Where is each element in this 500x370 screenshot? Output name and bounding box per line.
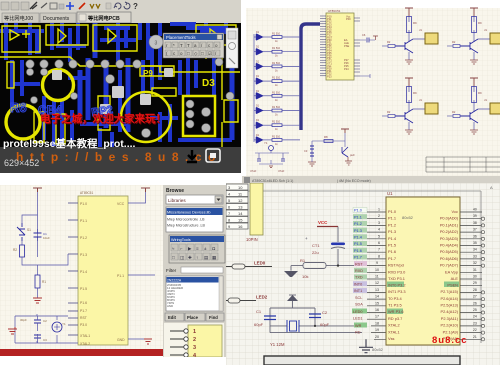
svg-text:P0.7(AD7): P0.7(AD7) — [440, 263, 459, 268]
svg-text:P0.0(AD0): P0.0(AD0) — [440, 216, 459, 221]
svg-text:P1.3: P1.3 — [388, 229, 396, 234]
svg-text:P0.2(AD2): P0.2(AD2) — [440, 229, 459, 234]
ground — [405, 60, 413, 64]
svg-text:▶: ▶ — [188, 246, 192, 251]
svg-text:VCC: VCC — [318, 220, 328, 225]
svg-text:EA Vpp: EA Vpp — [445, 269, 458, 274]
svg-text:P1.1: P1.1 — [80, 219, 87, 223]
svg-text:Miep Microstructure .LB: Miep Microstructure .LB — [167, 224, 206, 228]
svg-text:GND: GND — [117, 338, 125, 342]
svg-text:SDA: SDA — [355, 303, 363, 307]
svg-text:2: 2 — [193, 337, 196, 343]
svg-text:Documents: Documents — [43, 16, 70, 22]
ground right — [345, 157, 352, 165]
svg-text:6: 6 — [378, 241, 380, 245]
svg-text:10k: 10k — [302, 274, 308, 279]
diode D2 row with resistor — [254, 46, 300, 58]
svg-text:3: 3 — [378, 221, 380, 225]
svg-text:Miscellaneous Devices.lib: Miscellaneous Devices.lib — [167, 211, 210, 215]
svg-text:Y1 12M: Y1 12M — [270, 342, 285, 347]
svg-text:P1.3: P1.3 — [354, 229, 362, 233]
svg-text:P1.1: P1.1 — [388, 216, 396, 221]
svg-text:P1.1: P1.1 — [354, 215, 362, 219]
svg-text:P1.2: P1.2 — [388, 222, 396, 227]
svg-text:INT1: INT1 — [354, 289, 362, 293]
svg-text:ALE: ALE — [451, 276, 459, 281]
svg-text:10: 10 — [238, 185, 243, 190]
svg-text:8: 8 — [378, 254, 380, 258]
svg-text:R1 510: R1 510 — [272, 33, 281, 36]
svg-text:protel99se基本教程_prot....: protel99se基本教程_prot.... — [3, 137, 136, 150]
junction — [314, 325, 316, 327]
PCB text R6 — [10, 100, 27, 115]
resistor R1 10k — [291, 258, 354, 279]
wire to connector — [413, 37, 425, 39]
svg-text:10uF: 10uF — [43, 236, 50, 240]
caption strip — [0, 147, 241, 173]
svg-text:C2: C2 — [43, 319, 47, 323]
svg-text:Y1: Y1 — [62, 322, 66, 326]
svg-text:5: 5 — [378, 234, 380, 238]
svg-text:16: 16 — [238, 224, 243, 229]
svg-text:P2.4(A12): P2.4(A12) — [440, 309, 458, 314]
svg-text:16: 16 — [375, 308, 379, 312]
svg-text:R1: R1 — [42, 280, 46, 284]
svg-text:629×452: 629×452 — [4, 158, 39, 168]
svg-text:21: 21 — [473, 335, 477, 339]
svg-text:T: T — [180, 43, 183, 48]
svg-text:□: □ — [172, 255, 175, 260]
svg-text:⌐: ⌐ — [180, 246, 183, 251]
svg-text:P1.5: P1.5 — [80, 287, 87, 291]
toolbar — [0, 0, 241, 12]
svg-text:P1.4: P1.4 — [80, 270, 87, 274]
svg-text:34: 34 — [473, 248, 477, 252]
svg-text:CT1: CT1 — [312, 243, 320, 248]
svg-text:C1: C1 — [256, 309, 262, 314]
svg-text:↑: ↑ — [196, 255, 198, 260]
red band at bottom — [0, 349, 165, 356]
power VCC bar — [405, 8, 413, 16]
transistor circuit Q4 — [447, 78, 500, 134]
diode D6 row with resistor — [254, 105, 300, 117]
sheet border — [240, 191, 481, 343]
svg-text:P3.0: P3.0 — [80, 323, 87, 327]
svg-text:13: 13 — [238, 205, 243, 210]
connector 10PIN — [246, 183, 263, 242]
svg-text:37: 37 — [473, 228, 477, 232]
svg-text:▦: ▦ — [212, 255, 217, 260]
svg-text:◫: ◫ — [180, 255, 185, 260]
svg-text:60pF: 60pF — [320, 322, 330, 327]
title block table — [426, 157, 500, 172]
svg-text:27: 27 — [473, 295, 477, 299]
size label 629x452 — [4, 158, 39, 168]
svg-text:47uF: 47uF — [250, 169, 257, 173]
wire diode cathode rail — [253, 34, 255, 142]
svg-text:P0.4(AD4): P0.4(AD4) — [440, 243, 459, 248]
crystal Y1 — [264, 141, 274, 151]
libraries listbox — [166, 207, 223, 232]
svg-text:Browse: Browse — [166, 188, 184, 194]
svg-text:P1.6: P1.6 — [354, 249, 362, 253]
svg-text:电子之城，欢迎大家来玩！: 电子之城，欢迎大家来玩！ — [40, 112, 166, 125]
ground under R1 — [284, 266, 298, 277]
resistor R2 — [13, 241, 38, 265]
diode D8 row with resistor — [254, 134, 300, 146]
bottom popup window edge — [264, 356, 460, 365]
capacitor C1 10uF — [34, 229, 51, 241]
svg-text:40: 40 — [473, 208, 477, 212]
svg-text:INT0: INT0 — [354, 282, 362, 286]
svg-text:P1.0: P1.0 — [80, 202, 87, 206]
svg-text:P1.6: P1.6 — [80, 301, 87, 305]
svg-text:WR P3.6: WR P3.6 — [388, 309, 404, 314]
wire GND right + ground — [128, 339, 152, 344]
crystal circuit — [254, 308, 362, 347]
svg-text:31: 31 — [473, 268, 477, 272]
PCB text P9 — [143, 69, 153, 78]
svg-text:WR: WR — [355, 324, 362, 328]
svg-text:D3: D3 — [202, 78, 215, 89]
PCB canvas — [0, 23, 241, 147]
svg-text:INT0 P3.2: INT0 P3.2 — [388, 282, 406, 287]
svg-text:32: 32 — [473, 261, 477, 265]
bus wire — [301, 24, 320, 130]
svg-text:P1.7: P1.7 — [80, 309, 87, 313]
resistor R2 base — [382, 40, 395, 48]
svg-text:Filter: Filter — [166, 268, 177, 273]
capacitor C5 47uF — [278, 159, 285, 173]
svg-text:P2.3(A11): P2.3(A11) — [441, 316, 459, 321]
resistor R8 — [324, 135, 333, 143]
svg-text:3: 3 — [193, 345, 196, 351]
svg-text:RXD: RXD — [355, 269, 363, 273]
svg-text:LED1: LED1 — [353, 317, 363, 321]
red watermark — [432, 335, 468, 346]
diode column D1-D8 with resistors — [254, 31, 300, 146]
PCB traces blue — [0, 23, 232, 147]
component preview — [164, 323, 224, 357]
svg-text:等比网电PCB: 等比网电PCB — [87, 14, 120, 22]
diode D7 row with resistor — [254, 119, 300, 131]
svg-text:P1.7: P1.7 — [388, 256, 396, 261]
PCB text BP2 — [91, 104, 114, 119]
svg-text:C3: C3 — [43, 338, 47, 342]
svg-text:60pF: 60pF — [254, 322, 264, 327]
wire — [37, 316, 39, 343]
edit place find buttons — [165, 313, 224, 321]
expand icon — [206, 149, 220, 162]
red chinese overlay text — [40, 112, 167, 126]
ground left — [308, 157, 316, 166]
crystal circuit bottom left — [250, 141, 289, 173]
svg-text:Libraries: Libraries — [168, 198, 186, 203]
svg-text:P1.4: P1.4 — [354, 236, 362, 240]
svg-text:11: 11 — [375, 275, 379, 279]
pad 3 — [149, 35, 163, 49]
resistor R1 — [35, 254, 68, 298]
crystal subcircuit — [15, 314, 78, 343]
svg-text:A: A — [490, 185, 493, 190]
wire stub right of IC — [360, 74, 370, 78]
svg-text:R2: R2 — [387, 40, 391, 44]
svg-text:puF: puF — [350, 153, 355, 157]
orange watermark — [16, 150, 222, 164]
svg-text:U1: U1 — [387, 191, 393, 196]
transistor Q5 — [342, 147, 355, 157]
connector J1 — [419, 28, 438, 44]
svg-text:Find: Find — [209, 315, 218, 320]
svg-text:P1.6: P1.6 — [388, 249, 396, 254]
svg-text:P2.6(A14): P2.6(A14) — [440, 296, 458, 301]
svg-text:T1 P3.5: T1 P3.5 — [388, 303, 402, 308]
svg-text:PSEN: PSEN — [447, 282, 458, 287]
wire oscillator loop — [15, 314, 78, 343]
svg-text:WiringTools: WiringTools — [171, 238, 191, 242]
LED0 connector pin — [226, 261, 272, 270]
svg-text:25: 25 — [473, 308, 477, 312]
right labels — [440, 209, 459, 281]
svg-text:P1.4: P1.4 — [388, 236, 397, 241]
svg-text:1: 1 — [378, 208, 380, 212]
capacitor C3 stack — [304, 146, 314, 156]
svg-text:20: 20 — [375, 335, 379, 339]
svg-text:R2: R2 — [13, 248, 17, 252]
svg-text:13: 13 — [375, 288, 379, 292]
svg-text:P2.2(A10): P2.2(A10) — [440, 323, 458, 328]
wire oscillator loop — [270, 308, 315, 333]
svg-text:14: 14 — [238, 211, 243, 216]
diode D3 row with resistor — [254, 60, 300, 72]
svg-text:22u: 22u — [312, 250, 319, 255]
svg-text:17: 17 — [375, 315, 379, 319]
libraries dropdown — [166, 195, 223, 204]
svg-text:12: 12 — [375, 281, 379, 285]
svg-text:4: 4 — [378, 228, 380, 232]
svg-text:Vcc: Vcc — [452, 209, 459, 214]
power arrow crystal — [287, 295, 298, 308]
svg-text:C3: C3 — [304, 149, 308, 153]
capacitor C2 30pF — [34, 320, 41, 323]
svg-text:P0.1(AD1): P0.1(AD1) — [440, 222, 459, 227]
ground left of crystal — [8, 327, 17, 334]
wire — [312, 133, 345, 157]
svg-text:P1.2: P1.2 — [80, 236, 87, 240]
svg-text:?: ? — [133, 2, 138, 11]
svg-text:28: 28 — [473, 288, 477, 292]
svg-text:C2: C2 — [322, 310, 328, 315]
IC U1 80c52 — [372, 191, 460, 352]
svg-text:15: 15 — [375, 301, 379, 305]
PCB text CB4 — [38, 103, 62, 117]
svg-text:▤: ▤ — [204, 255, 209, 260]
svg-text:30pF: 30pF — [20, 318, 27, 322]
svg-text:TXD: TXD — [355, 276, 363, 280]
svg-text:AT89C51: AT89C51 — [80, 191, 93, 195]
svg-text:T0 P3.4: T0 P3.4 — [388, 296, 402, 301]
svg-text:P1.1: P1.1 — [117, 274, 124, 278]
svg-text:XTAL1: XTAL1 — [80, 334, 90, 338]
side toolbar white strip — [226, 28, 238, 68]
capacitor C4 47uF — [250, 159, 261, 173]
svg-text:□: □ — [187, 51, 190, 56]
svg-text:P2.5(A13): P2.5(A13) — [440, 303, 458, 308]
pin table rows — [226, 184, 248, 229]
svg-text:18: 18 — [375, 321, 379, 325]
svg-text:P0.3(AD3): P0.3(AD3) — [440, 236, 459, 241]
svg-text:P0.6(AD6): P0.6(AD6) — [440, 256, 459, 261]
power bar — [341, 129, 349, 133]
svg-text:7: 7 — [378, 248, 380, 252]
svg-text:8u8.cc: 8u8.cc — [432, 335, 468, 346]
svg-text:LED0: LED0 — [254, 261, 266, 266]
svg-text:14: 14 — [375, 295, 379, 299]
svg-text:等比网电J00: 等比网电J00 — [4, 14, 33, 22]
svg-text:RD: RD — [355, 331, 361, 335]
svg-text:R9: R9 — [413, 21, 417, 25]
resistor R1 — [263, 33, 300, 44]
svg-text:R6: R6 — [10, 100, 27, 115]
svg-text:P2.7(A15): P2.7(A15) — [440, 289, 458, 294]
svg-text:XTAL2: XTAL2 — [80, 342, 90, 346]
svg-text:P00: P00 — [346, 17, 351, 21]
svg-text:19: 19 — [375, 328, 379, 332]
svg-text:R8: R8 — [324, 135, 328, 139]
capacitor C1 — [264, 316, 276, 320]
parts listbox — [166, 276, 223, 311]
svg-text:RST: RST — [355, 262, 363, 266]
white title text — [3, 137, 136, 150]
svg-text:LED0: LED0 — [353, 310, 363, 314]
ground below IC — [359, 339, 373, 352]
svg-text:T: T — [187, 43, 190, 48]
svg-text:36: 36 — [473, 234, 477, 238]
svg-text:□: □ — [201, 51, 204, 56]
IC U1 AT89C51 — [68, 191, 128, 346]
svg-text:≡: ≡ — [196, 246, 199, 251]
svg-text:J1: J1 — [419, 28, 422, 32]
svg-text:39: 39 — [473, 214, 477, 218]
main left vertical wire — [37, 192, 39, 257]
floating mini toolbar — [169, 235, 225, 263]
svg-text:P9: P9 — [143, 69, 153, 78]
capacitor C2 — [309, 314, 321, 318]
svg-text:15: 15 — [238, 218, 243, 223]
svg-text:23: 23 — [473, 321, 477, 325]
svg-text:1: 1 — [193, 329, 196, 335]
svg-text:P1.5: P1.5 — [354, 242, 362, 246]
svg-text:TXD P3.1: TXD P3.1 — [388, 276, 405, 281]
power bar right — [141, 188, 150, 192]
IC U2 LED driver — [320, 9, 360, 80]
svg-text:XTAL1: XTAL1 — [388, 329, 400, 334]
right pin wires — [460, 208, 485, 341]
svg-text:35: 35 — [473, 241, 477, 245]
svg-text:Vss: Vss — [388, 336, 395, 341]
svg-text:Edit: Edit — [168, 315, 177, 320]
svg-text:80c52: 80c52 — [402, 215, 414, 220]
PCB text D3 — [202, 78, 215, 89]
PlacementTools toolbar — [163, 33, 224, 58]
svg-text:VCC: VCC — [117, 202, 125, 206]
svg-text:2: 2 — [378, 214, 380, 218]
svg-text:80c52: 80c52 — [372, 347, 384, 352]
svg-text:AT89C51: AT89C51 — [328, 9, 341, 13]
diode D5 row with resistor — [254, 90, 300, 102]
svg-text:33: 33 — [473, 254, 477, 258]
status bar — [242, 176, 500, 184]
svg-text:P1.3: P1.3 — [80, 253, 87, 257]
wire collector chain — [408, 16, 410, 60]
svg-text:PSE: PSE — [344, 44, 349, 48]
VCC power — [317, 220, 338, 227]
svg-text:Miep Microcontrolle .LB: Miep Microcontrolle .LB — [167, 218, 205, 222]
tab bar — [0, 12, 241, 23]
svg-text:SCL: SCL — [355, 296, 362, 300]
svg-text:Y1: Y1 — [264, 141, 268, 145]
svg-text:AND: AND — [167, 304, 173, 308]
transistor circuit Q2 — [447, 8, 500, 64]
wire XTAL1 XTAL2 — [270, 326, 362, 333]
pin wires + numbers left — [367, 208, 386, 340]
svg-text:✚: ✚ — [188, 255, 192, 260]
svg-text:P23: P23 — [327, 74, 332, 78]
svg-text:*: * — [173, 43, 175, 48]
svg-text:PlacementTools: PlacementTools — [166, 35, 196, 40]
crystal Y1 — [52, 322, 62, 332]
net label rows left of IC — [352, 208, 367, 335]
diode D1 — [254, 31, 263, 40]
svg-text:LED2: LED2 — [256, 295, 268, 300]
svg-text:RST: RST — [80, 316, 87, 320]
wire P1.1 right — [128, 274, 155, 276]
svg-text:P0.5(AD5): P0.5(AD5) — [440, 249, 459, 254]
svg-text:+: + — [305, 236, 308, 241]
PCB silkscreen yellow — [0, 25, 240, 150]
svg-text:26: 26 — [473, 301, 477, 305]
ground under R1 — [33, 298, 42, 303]
svg-text:47uF: 47uF — [278, 169, 285, 173]
switch S1 — [17, 215, 38, 241]
transistor driver circuit Q1 with R9, J1 — [382, 8, 438, 64]
resistor R9 — [407, 17, 418, 33]
svg-text:P24: P24 — [344, 67, 349, 71]
svg-text:RXD P3.0: RXD P3.0 — [388, 269, 406, 274]
reset circuit middle — [304, 129, 355, 166]
svg-text:10: 10 — [375, 268, 379, 272]
svg-text:38: 38 — [473, 221, 477, 225]
svg-text:INT1 P3.3: INT1 P3.3 — [388, 289, 406, 294]
svg-text:◇: ◇ — [194, 51, 198, 56]
svg-text:30: 30 — [473, 275, 477, 279]
transistor circuit Q3 — [382, 78, 438, 134]
svg-text:3: 3 — [155, 41, 158, 47]
svg-text:RD p3.7: RD p3.7 — [388, 316, 402, 321]
svg-text:P1.0: P1.0 — [354, 209, 362, 213]
svg-text:22: 22 — [473, 328, 477, 332]
svg-text:P1.7: P1.7 — [354, 256, 362, 260]
svg-text:P1.0: P1.0 — [388, 209, 397, 214]
svg-text:C6: C6 — [362, 33, 366, 37]
wire crystal loop — [255, 150, 289, 164]
capacitor CT1 22u — [305, 227, 345, 266]
LED2 connector pin — [226, 295, 268, 304]
capacitor C3 30pF — [34, 335, 41, 338]
svg-text:2N2222A: 2N2222A — [167, 279, 182, 283]
svg-text:Place: Place — [187, 315, 199, 320]
ground — [269, 166, 273, 168]
